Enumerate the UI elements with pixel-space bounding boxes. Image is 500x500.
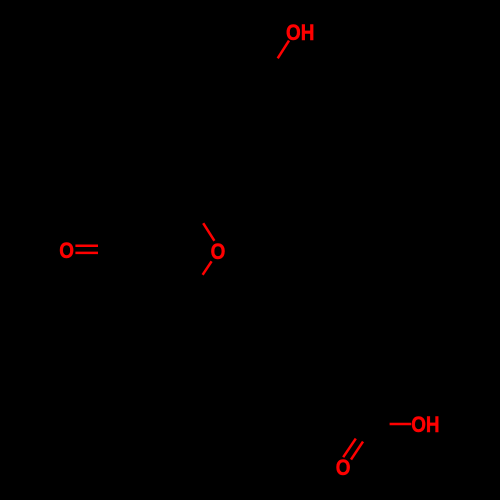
bond O-C2 upper (red half) [203, 223, 214, 241]
svg-text:O: O [211, 240, 226, 265]
svg-text:OH: OH [411, 412, 439, 437]
bond C-OH phenol (red half) [278, 41, 289, 59]
double bond C=O ketone lower line (red half) [75, 252, 98, 255]
double bond C=O acid right line (red half) [351, 442, 363, 460]
bond C-OH acid (red half) [390, 423, 412, 426]
svg-text:O: O [336, 456, 351, 481]
svg-text:OH: OH [286, 21, 314, 46]
bond O-C6 lower (red half) [203, 261, 212, 275]
svg-text:O: O [59, 238, 74, 263]
double bond C=O acid left line (red half) [343, 439, 356, 458]
double bond C=O ketone upper line (red half) [75, 245, 98, 248]
